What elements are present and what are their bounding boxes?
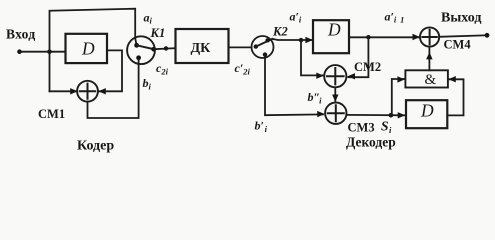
svg-text:D: D: [420, 101, 434, 121]
gate U1 AND: [405, 70, 448, 87]
wire DK to K2: [229, 46, 252, 48]
svg-text:Кодер: Кодер: [77, 139, 114, 154]
node a'_i+1 junction: [366, 35, 370, 39]
node on wire c_2i: [164, 46, 168, 50]
svg-text:СМ4: СМ4: [444, 38, 472, 52]
register D2 (decoder input): [313, 20, 349, 53]
wire a'_i down to CM2 left: [301, 40, 323, 75]
wire input to D: [20, 51, 66, 53]
wire b'_i K2 bottom to CM3: [265, 55, 323, 116]
svg-text:СМ3: СМ3: [348, 121, 375, 135]
register D3 (feedback): [406, 100, 447, 128]
node S_i junction: [389, 113, 394, 118]
node input junction: [47, 49, 52, 54]
node output terminal: [485, 33, 490, 38]
wire c_2i K1 to DK: [154, 48, 175, 49]
svg-text:Вход: Вход: [6, 27, 35, 42]
svg-text:b″i: b″i: [308, 90, 323, 106]
wire a'_i+1 D2 output to CM4: [349, 36, 419, 38]
svg-text:D: D: [81, 39, 95, 59]
wire D3 output to AND right input: [447, 79, 463, 115]
svg-text:Декодер: Декодер: [346, 135, 396, 150]
switch K1: [127, 36, 155, 64]
wire output: [439, 35, 487, 37]
wire K1 wiper: [137, 45, 155, 49]
register D1 (encoder): [66, 34, 108, 63]
svg-text:&: &: [425, 72, 437, 88]
switch K2: [252, 36, 274, 58]
wire b_i CM1 output to K1 bottom contact: [88, 58, 139, 118]
adder CM2: [324, 65, 346, 87]
wire S_i CM3 output to D3: [347, 114, 405, 116]
adder CM1: [77, 81, 98, 102]
node K1 output: [151, 47, 156, 52]
node input terminal: [17, 49, 22, 54]
node K1 top contact a_i: [134, 43, 139, 48]
adder CM4: [420, 27, 439, 46]
wire K2 wiper: [256, 39, 272, 47]
node K2 bottom contact: [263, 52, 267, 56]
wire a_i feedforward up and over to K1: [50, 9, 137, 92]
wire a'_i K2 to D2: [272, 39, 311, 40]
node K2 input contact: [254, 44, 258, 48]
wire CM1 left input: [50, 90, 77, 92]
svg-text:Выход: Выход: [441, 11, 481, 26]
svg-text:ДК: ДК: [191, 41, 212, 56]
svg-text:D: D: [327, 20, 341, 40]
node a'_i junction: [299, 38, 303, 42]
node K2 top-right contact: [265, 38, 269, 42]
wire b''_i CM2 to CM3: [334, 87, 336, 100]
node K1 bottom contact b_i: [136, 55, 141, 60]
wire junction down to CM2 right: [348, 37, 368, 77]
svg-text:СМ2: СМ2: [354, 60, 381, 74]
svg-text:К2: К2: [272, 25, 288, 39]
wire D1 output down to CM1: [99, 50, 122, 91]
wire AND output up to CM4: [428, 48, 430, 70]
svg-text:К1: К1: [150, 26, 166, 40]
wire S_i up to AND gate: [392, 79, 404, 115]
adder CM3: [325, 103, 346, 124]
svg-text:СМ1: СМ1: [38, 107, 65, 121]
block DK: [176, 29, 229, 63]
